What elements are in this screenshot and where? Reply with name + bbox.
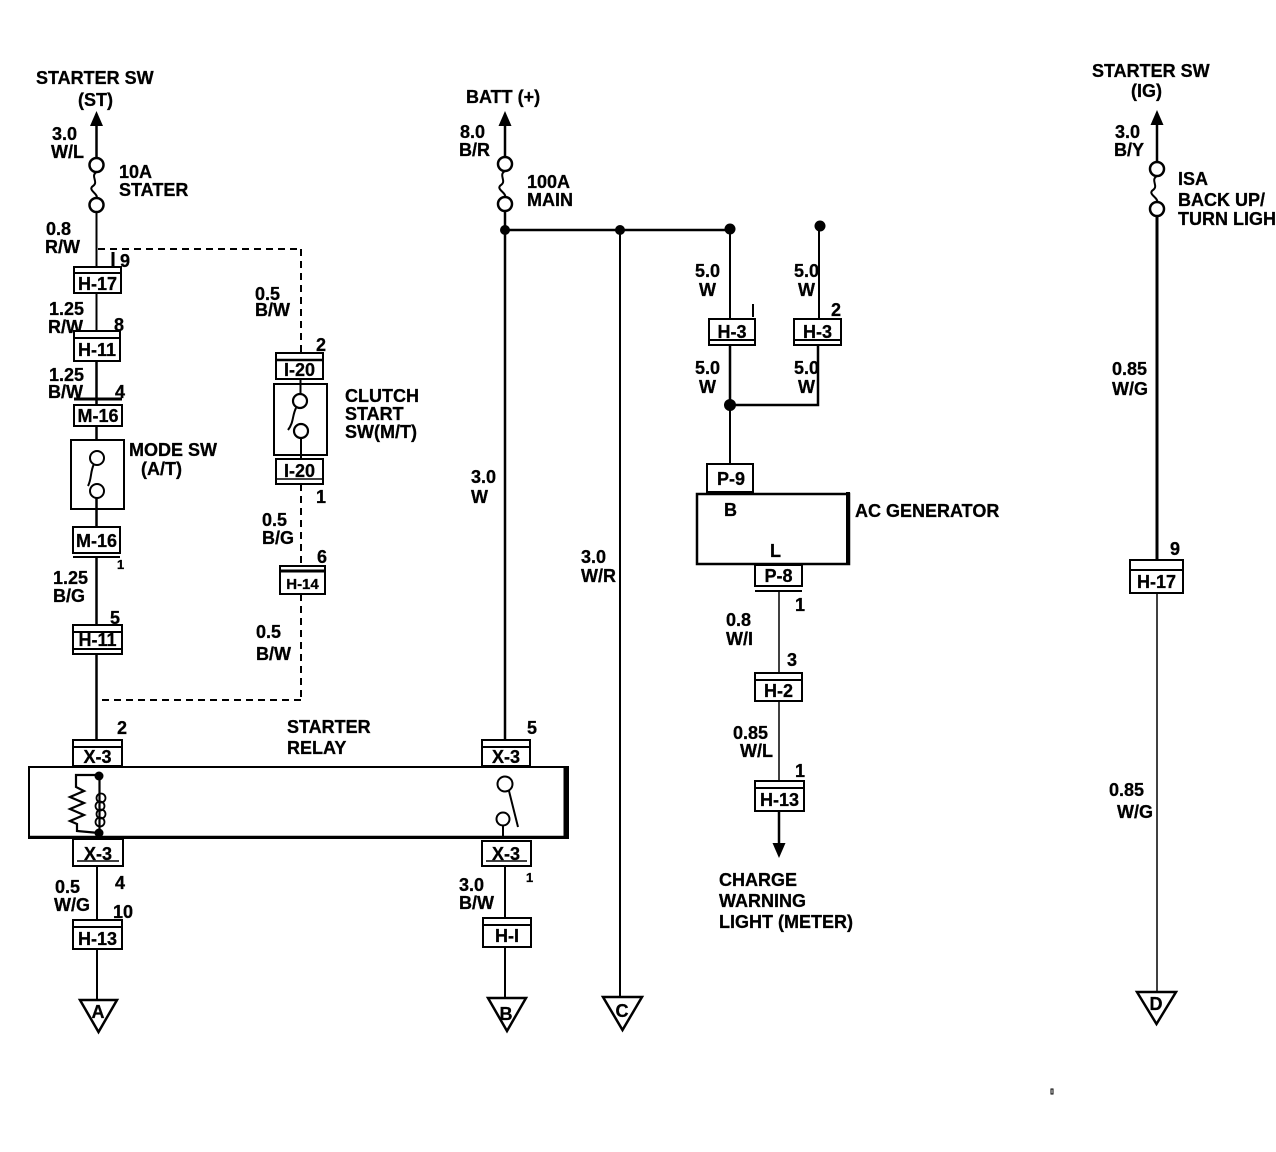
svg-text:MODE SW: MODE SW <box>129 440 217 460</box>
relay switch contact <box>497 777 519 840</box>
wire bus down to X-3 pin 5 <box>504 230 507 740</box>
fuse value label 100A MAIN <box>527 172 573 210</box>
svg-text:P-9: P-9 <box>717 469 745 489</box>
off-page connector B <box>488 998 526 1031</box>
stray scan mark <box>1051 1089 1053 1094</box>
wire label 0.85 W/G lower <box>1109 780 1153 822</box>
wire M-16 to MODE SW <box>95 426 98 451</box>
svg-text:H-13: H-13 <box>78 929 117 949</box>
svg-text:STATER: STATER <box>119 180 188 200</box>
svg-text:5.0: 5.0 <box>695 358 720 378</box>
wire label 0.5 B/G <box>262 510 294 548</box>
svg-text:(ST): (ST) <box>78 90 113 110</box>
svg-text:3.0: 3.0 <box>1115 122 1140 142</box>
svg-text:I-20: I-20 <box>284 360 315 380</box>
svg-text:H-17: H-17 <box>1137 572 1176 592</box>
svg-text:R/W: R/W <box>45 237 80 257</box>
svg-text:W/L: W/L <box>740 741 773 761</box>
connector P-8 <box>755 565 802 591</box>
svg-text:STARTER SW: STARTER SW <box>36 68 154 88</box>
svg-text:B: B <box>724 500 737 520</box>
svg-text:1.25: 1.25 <box>53 568 88 588</box>
svg-text:W: W <box>798 280 815 300</box>
wire label 1.25 B/G <box>53 568 88 606</box>
relay STARTER RELAY box <box>29 767 568 838</box>
svg-text:I-20: I-20 <box>284 461 315 481</box>
junction dot isolated branch 2 <box>815 221 826 232</box>
wire label 0.85 W/G upper <box>1112 359 1148 399</box>
svg-text:2: 2 <box>831 300 841 320</box>
svg-text:B/G: B/G <box>262 528 294 548</box>
wire M-16 to H-11 lower <box>95 557 98 625</box>
svg-text:0.8: 0.8 <box>46 219 71 239</box>
resistor in starter relay <box>70 775 99 833</box>
connector X-3 lower-left <box>73 839 123 866</box>
svg-text:X-3: X-3 <box>83 747 111 767</box>
svg-text:WARNING: WARNING <box>719 891 806 911</box>
MODE SW (A/T) label <box>129 440 217 479</box>
connector M-16 upper <box>74 399 122 426</box>
svg-text:(IG): (IG) <box>1131 81 1162 101</box>
svg-text:3.0: 3.0 <box>459 875 484 895</box>
connector I-20 upper <box>276 353 323 380</box>
junction dot below H-3 pair <box>724 399 736 411</box>
arrow to charge warning light <box>773 811 786 858</box>
dashed wire I-20 to H-14 <box>300 484 302 566</box>
svg-text:W/I: W/I <box>726 629 753 649</box>
junction dot relay coil bottom <box>95 829 104 838</box>
wire fuse to bus junction <box>504 210 507 231</box>
wire fuse to H-17 right <box>1156 215 1159 560</box>
power feed arrow to STARTER SW (IG) <box>1151 110 1164 162</box>
svg-text:B/R: B/R <box>459 140 490 160</box>
wire label 3.0 B/Y <box>1114 122 1144 160</box>
junction dot at battery bus left <box>500 225 510 235</box>
svg-text:H-I: H-I <box>495 926 519 946</box>
connector H-11 <box>74 331 120 361</box>
svg-text:3.0: 3.0 <box>52 124 77 144</box>
svg-text:W: W <box>798 377 815 397</box>
svg-text:1.25: 1.25 <box>49 299 84 319</box>
fuse value label 10A STATER <box>119 162 188 200</box>
wire label 0.85 W/L <box>733 723 773 761</box>
svg-text:ISA: ISA <box>1178 169 1208 189</box>
svg-text:0.5: 0.5 <box>256 622 281 642</box>
svg-text:5.0: 5.0 <box>794 358 819 378</box>
svg-text:H-11: H-11 <box>78 340 116 360</box>
wire H-11 to M-16 <box>95 361 98 405</box>
wire label 3.0 W <box>471 467 496 507</box>
svg-text:X-3: X-3 <box>492 747 520 767</box>
svg-text:B/G: B/G <box>53 586 85 606</box>
junction dot relay coil top <box>95 772 104 781</box>
svg-text:B/Y: B/Y <box>1114 140 1144 160</box>
wire P-8 to H-2 <box>778 591 780 673</box>
svg-text:1: 1 <box>795 761 805 781</box>
svg-text:W: W <box>699 280 716 300</box>
svg-text:6: 6 <box>317 547 327 567</box>
wire H-11 to X-3 pin2 <box>95 654 98 740</box>
connector H-14 <box>280 566 325 594</box>
switch CLUTCH START SW (M/T) <box>274 379 327 459</box>
wire label 0.8 W/I <box>726 610 753 649</box>
svg-text:C: C <box>616 1001 629 1021</box>
svg-text:H-13: H-13 <box>760 790 799 810</box>
fuse value label ISA BACK UP/TURN LIGHT <box>1178 169 1276 229</box>
CHARGE WARNING LIGHT (METER) label <box>719 870 853 932</box>
wire label 0.5 W/G <box>54 877 90 915</box>
connector X-3 upper-middle <box>482 740 530 767</box>
svg-text:1: 1 <box>795 595 805 615</box>
junction dot battery bus right end <box>725 224 736 235</box>
connector H-3 left <box>709 319 755 345</box>
svg-text:RELAY: RELAY <box>287 738 346 758</box>
svg-text:8.0: 8.0 <box>460 122 485 142</box>
svg-text:W/R: W/R <box>581 566 616 586</box>
pin 1 of H-3 left <box>752 304 754 317</box>
wire H-3 left down to junction <box>729 345 732 406</box>
wire H-I to connector B <box>504 947 506 998</box>
off-page connector D <box>1137 992 1176 1024</box>
wire label 5.0 W (right branch upper) <box>794 261 819 300</box>
svg-text:B/W: B/W <box>255 300 290 320</box>
svg-text:B/W: B/W <box>256 644 291 664</box>
svg-text:W/G: W/G <box>1117 802 1153 822</box>
wire bus end down to H-3 pin 1 <box>729 229 731 319</box>
wire label 0.8 R/W <box>45 219 80 257</box>
svg-text:100A: 100A <box>527 172 570 192</box>
svg-text:W: W <box>471 487 488 507</box>
svg-text:1: 1 <box>316 487 326 507</box>
connector H-13 right <box>755 781 804 811</box>
svg-text:0.85: 0.85 <box>733 723 768 743</box>
AC GENERATOR box <box>697 492 849 564</box>
svg-text:5.0: 5.0 <box>695 261 720 281</box>
wire H-3 right down and left to junction <box>730 345 818 405</box>
wire label 5.0 W (left branch upper) <box>695 261 720 300</box>
svg-text:9: 9 <box>1170 539 1180 559</box>
relay STARTER RELAY label <box>287 717 371 758</box>
svg-text:W/G: W/G <box>1112 379 1148 399</box>
power feed arrow to BATT (+) <box>499 111 512 157</box>
switch MODE SW (A/T) <box>71 440 124 509</box>
svg-text:H-2: H-2 <box>764 681 793 701</box>
svg-text:10A: 10A <box>119 162 152 182</box>
connector H-17 <box>74 267 121 294</box>
svg-text:1: 1 <box>526 870 533 885</box>
svg-text:BACK UP/: BACK UP/ <box>1178 190 1265 210</box>
svg-text:W/G: W/G <box>54 895 90 915</box>
svg-text:1: 1 <box>117 557 124 572</box>
wire label 5.0 W (right branch lower) <box>794 358 819 397</box>
svg-text:B: B <box>500 1004 513 1024</box>
svg-text:B/W: B/W <box>459 893 494 913</box>
svg-text:3.0: 3.0 <box>581 547 606 567</box>
wire X-3 to H-13 <box>96 866 98 920</box>
wire label 3.0 B/W <box>459 875 494 913</box>
wire junction to P-9 <box>729 405 731 464</box>
svg-text:2: 2 <box>117 718 127 738</box>
wire label 8.0 B/R <box>459 122 490 160</box>
svg-text:BATT (+): BATT (+) <box>466 87 540 107</box>
wire label 3.0 W/L <box>51 124 84 162</box>
svg-text:AC GENERATOR: AC GENERATOR <box>855 501 999 521</box>
wire label 0.5 B/W (clutch top) <box>255 284 290 320</box>
svg-text:3.0: 3.0 <box>471 467 496 487</box>
connector X-3 lower-middle <box>482 841 531 866</box>
wire battery bus horizontal <box>505 229 730 232</box>
pin 9 of H-17 <box>113 251 130 271</box>
svg-text:0.85: 0.85 <box>1109 780 1144 800</box>
connector H-13 left <box>73 920 122 949</box>
svg-text:0.85: 0.85 <box>1112 359 1147 379</box>
svg-text:SW(M/T): SW(M/T) <box>345 422 417 442</box>
svg-text:TURN LIGHT: TURN LIGHT <box>1178 209 1276 229</box>
wire H-17 to H-11 <box>96 293 98 331</box>
connector X-3 upper-left <box>73 740 122 767</box>
svg-text:3: 3 <box>787 650 797 670</box>
wire MODE SW to M-16 lower <box>95 498 98 527</box>
svg-text:LIGHT (METER): LIGHT (METER) <box>719 912 853 932</box>
svg-text:H-14: H-14 <box>286 576 319 593</box>
fuse ISA BACK UP/TURN LIGHT <box>1150 162 1164 216</box>
fuse 100A MAIN <box>498 157 512 211</box>
svg-text:STARTER SW: STARTER SW <box>1092 61 1210 81</box>
svg-text:H-17: H-17 <box>78 274 117 294</box>
svg-text:M-16: M-16 <box>77 406 118 426</box>
svg-text:0.5: 0.5 <box>262 510 287 530</box>
node STARTER SW (ST) label <box>36 68 154 110</box>
wire label 1.25 R/W <box>48 299 84 337</box>
dashed wire 0.8 B/W branch top <box>98 249 301 353</box>
wire branch 2 down to H-3 pin 2 <box>818 226 820 319</box>
connector P-9 <box>707 464 753 492</box>
connector I-20 lower <box>276 459 323 484</box>
svg-text:L: L <box>770 541 781 561</box>
wire fuse to H-17 <box>96 211 98 267</box>
node STARTER SW (IG) label <box>1092 61 1210 101</box>
off-page connector C <box>603 997 642 1030</box>
svg-text:CHARGE: CHARGE <box>719 870 797 890</box>
connector M-16 lower <box>73 527 120 557</box>
connector H-2 <box>755 673 802 701</box>
svg-text:0.8: 0.8 <box>726 610 751 630</box>
svg-text:A: A <box>92 1002 105 1022</box>
svg-text:W/L: W/L <box>51 142 84 162</box>
svg-text:CLUTCH: CLUTCH <box>345 386 419 406</box>
off-page connector A <box>80 1000 117 1032</box>
wire label 0.5 B/W (lower) <box>256 622 291 664</box>
power feed arrow to STARTER SW (ST) <box>90 111 103 158</box>
wire X-3 to H-I <box>504 866 506 918</box>
junction dot battery bus middle <box>615 225 625 235</box>
fuse 10A STATER <box>90 158 104 212</box>
svg-text:W: W <box>699 377 716 397</box>
svg-text:0.5: 0.5 <box>55 877 80 897</box>
svg-text:H-11: H-11 <box>78 630 116 650</box>
relay coil <box>96 776 106 833</box>
wire label 5.0 W (left branch lower) <box>695 358 720 397</box>
wire label 3.0 W/R <box>581 547 616 586</box>
wire H-17 to connector D <box>1156 593 1158 992</box>
connector H-17 right <box>1130 560 1183 593</box>
connector H-I <box>483 918 531 947</box>
svg-text:MAIN: MAIN <box>527 190 573 210</box>
connector H-11 lower <box>73 625 122 654</box>
svg-text:M-16: M-16 <box>76 531 117 551</box>
wire H-2 to H-13 <box>778 701 780 781</box>
svg-text:P-8: P-8 <box>764 566 792 586</box>
svg-text:START: START <box>345 404 404 424</box>
CLUTCH START SW(M/T) label <box>345 386 419 442</box>
svg-text:5: 5 <box>527 718 537 738</box>
svg-text:STARTER: STARTER <box>287 717 371 737</box>
wire bus down to connector C <box>619 230 621 997</box>
connector H-3 right <box>794 319 841 345</box>
wire label 1.25 B/W <box>48 365 84 402</box>
dashed wire H-14 down and left to main wire <box>100 594 301 700</box>
svg-text:4: 4 <box>115 873 125 893</box>
wire H-13 to connector A <box>96 949 98 1000</box>
svg-text:D: D <box>1150 994 1163 1014</box>
svg-text:5.0: 5.0 <box>794 261 819 281</box>
svg-text:(A/T): (A/T) <box>141 459 182 479</box>
